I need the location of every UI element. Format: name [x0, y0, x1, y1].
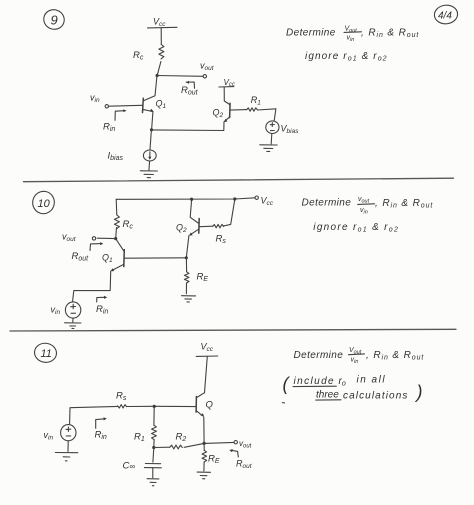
ground (problem 11, capacitor): [147, 479, 159, 486]
resistor RE (problem 10): [184, 272, 189, 283]
svg-text:Vbias: Vbias: [281, 124, 300, 136]
wire RE to ground: [185, 283, 187, 294]
wire Q2 base to R1: [230, 109, 247, 112]
wire Ibias to ground: [148, 161, 151, 170]
wire node down to coupling capacitor: [152, 448, 155, 463]
Rin measuring arrow (problem 10): [97, 296, 108, 302]
svg-text:include: include: [294, 376, 336, 387]
wire node to vout terminal: [157, 75, 203, 78]
transistor Q2 (problem 10): [176, 219, 199, 236]
Rout measuring arrow (problem 10): [90, 242, 103, 250]
svg-text:RE: RE: [197, 272, 209, 284]
capacitor C-infinity (problem 11): [144, 464, 161, 468]
svg-text:Rs: Rs: [216, 234, 227, 246]
underline under "include": [293, 385, 336, 387]
svg-text:Rout: Rout: [181, 85, 199, 97]
node: Q1 base / Q2 emitter / RE junction: [185, 256, 188, 259]
resistor Rc (problem 9): [159, 45, 164, 60]
svg-text:Rin: Rin: [96, 304, 108, 316]
ground (problem 10, vin): [65, 323, 81, 329]
svg-text:4/4: 4/4: [438, 11, 452, 22]
wire node down to R1: [153, 406, 155, 425]
fraction bar (problem 9 text): [344, 31, 362, 34]
svg-text:vout: vout: [358, 196, 370, 205]
svg-text:vout: vout: [239, 439, 252, 449]
transistor Q1 (problem 9): [143, 98, 167, 112]
voltage source Vbias (problem 9): [266, 121, 279, 134]
svg-text:vin: vin: [44, 430, 54, 442]
resistor R1 (problem 11): [152, 425, 157, 440]
terminal vout (problem 11): [234, 441, 237, 444]
fraction bar (problem 10 text): [358, 203, 375, 206]
Rin measuring arrow (problem 11): [96, 417, 107, 428]
wire node up to Q2 emitter: [186, 236, 189, 258]
text: ignore ro1 & ro2 (problem 9): [305, 51, 388, 63]
svg-text:vout: vout: [200, 61, 215, 73]
svg-text:, Rin & Rout: , Rin & Rout: [366, 350, 424, 362]
svg-text:vin: vin: [351, 357, 359, 366]
ground (problem 9, Ibias): [140, 171, 157, 178]
Rin measuring arrow (problem 9): [115, 109, 127, 120]
Rout measuring arrow (problem 9): [186, 81, 195, 89]
svg-text:Q: Q: [206, 400, 214, 411]
svg-text:R2: R2: [176, 432, 187, 444]
node: emitter/bias junction (problem 9): [150, 128, 153, 131]
svg-text:Rs: Rs: [116, 391, 127, 403]
ground (problem 11, vin): [55, 453, 78, 461]
node on rail above Q2 collector: [190, 198, 193, 201]
top supply rail wire (problem 10): [116, 198, 255, 200]
wire vin to ground: [67, 441, 69, 452]
text: ignore ro1 & ro2 (problem 10): [313, 222, 399, 234]
svg-text:Determine: Determine: [294, 350, 344, 361]
svg-text:R1: R1: [134, 432, 145, 444]
svg-text:Q2: Q2: [213, 108, 224, 120]
wire R3 to rail: [224, 200, 235, 226]
svg-text:Determine: Determine: [286, 28, 336, 39]
wire Rc to vout node: [115, 228, 118, 239]
svg-text:Vcc: Vcc: [201, 342, 214, 354]
svg-text:Vcc: Vcc: [261, 196, 274, 208]
wire Q1 emitter down and left to vin: [73, 271, 111, 302]
text: Determine vout/vin, Rin & Rout (problem 11): [294, 347, 425, 365]
Vcc supply label (problem 9, over Q2): [219, 78, 235, 88]
ground (problem 11, RE): [197, 472, 210, 479]
svg-text:Q1: Q1: [156, 99, 167, 111]
svg-text:(: (: [283, 374, 291, 394]
wire node to R2: [154, 446, 170, 448]
svg-text:Rin: Rin: [103, 122, 115, 134]
wire node to Rs: [126, 405, 154, 407]
terminal vout (problem 10): [92, 237, 95, 240]
node: collector/vout junction (problem 9): [156, 74, 159, 77]
transistor Q (problem 11): [196, 393, 213, 417]
svg-text:calculations: calculations: [343, 391, 408, 402]
ground (problem 9, Vbias): [260, 145, 277, 152]
stray pen mark: [283, 402, 285, 404]
svg-text:vin: vin: [360, 207, 368, 216]
wire Q1 base to emitter node of Q2: [124, 257, 186, 259]
terminal Vcc (problem 10): [255, 196, 258, 199]
section divider line 2: [10, 329, 456, 331]
transistor Q1 (problem 10): [102, 250, 124, 272]
svg-text:11: 11: [41, 348, 52, 360]
wire Q2 collector to rail: [190, 200, 199, 224]
wire vin to Q1 base: [109, 104, 143, 107]
svg-text:Q2: Q2: [176, 223, 187, 235]
svg-text:Rout: Rout: [72, 251, 90, 263]
wire Rc to collector node: [157, 62, 161, 76]
text: Determine vout/vin, Rin & Rout (problem 10): [302, 196, 434, 216]
svg-text:vin: vin: [347, 35, 355, 44]
wire node to vout terminal: [97, 237, 116, 239]
voltage source vin (problem 11): [61, 425, 76, 441]
terminal vout (problem 9): [203, 75, 206, 78]
text: (include ro in all three calculations) (problem 11): [283, 374, 423, 402]
svg-text:10: 10: [38, 198, 51, 210]
resistor Rc (problem 10): [114, 215, 119, 229]
fraction bar (problem 11 text): [349, 353, 365, 356]
svg-text:in all: in all: [357, 375, 387, 386]
svg-text:Rc: Rc: [133, 50, 144, 62]
svg-text:three: three: [316, 390, 339, 401]
wire node to Ibias source: [150, 130, 151, 150]
wire Q emitter down to output node: [203, 417, 205, 443]
node: vout/collector junction (problem 10): [114, 237, 117, 240]
terminal vin (problem 9): [105, 105, 108, 108]
svg-text:Vcc: Vcc: [153, 17, 166, 29]
underline under "three": [316, 399, 341, 401]
wire Vcc rail to Rc: [160, 28, 162, 45]
wire vin to ground: [72, 318, 74, 322]
svg-text:Determine: Determine: [302, 198, 352, 209]
problem number 11 circle: [33, 342, 57, 364]
wire RE to ground: [203, 462, 205, 471]
resistor R3 (problem 10): [213, 224, 224, 227]
svg-text:vout: vout: [62, 232, 77, 244]
svg-text:R1: R1: [251, 95, 261, 107]
wire Vbias to ground: [270, 134, 273, 144]
wire R1 to lower node: [153, 440, 155, 448]
wire capacitor to ground: [152, 468, 154, 478]
Vcc supply label (problem 9, over Rc): [148, 17, 178, 29]
wire node down to RE: [203, 443, 205, 450]
resistor Rs (problem 11): [118, 405, 127, 408]
svg-text:9: 9: [51, 13, 58, 28]
ground (problem 10, RE): [182, 296, 196, 302]
page number 4/4 badge: [433, 4, 458, 25]
text: Determine vout/vin, Rin & Rout (problem 9): [286, 26, 419, 44]
wire Q1 emitter down to bias node: [152, 112, 153, 129]
resistor R1 (problem 9): [247, 108, 258, 111]
wire Q base to R1 node: [154, 405, 196, 407]
svg-text:Q1: Q1: [102, 253, 113, 265]
svg-text:, Rin & Rout: , Rin & Rout: [361, 28, 419, 40]
problem number 9 circle: [41, 7, 67, 32]
wire node down to Q1 collector: [144, 76, 158, 101]
svg-text:ignore ro1 & ro2: ignore ro1 & ro2: [313, 222, 399, 234]
wire Rs to vin: [70, 406, 118, 423]
wire R1 to Vbias source: [258, 109, 276, 121]
svg-text:ignore ro1 & ro2: ignore ro1 & ro2: [305, 51, 388, 63]
svg-text:, Rin & Rout: , Rin & Rout: [375, 198, 433, 210]
svg-text:RE: RE: [208, 454, 220, 466]
wire vout node to Q1 collector: [116, 239, 124, 252]
voltage source vin (problem 10): [65, 302, 80, 318]
Vcc supply label (problem 11): [196, 342, 218, 357]
Rout measuring arrow (problem 11): [229, 449, 238, 457]
resistor R2 (problem 11): [170, 445, 182, 449]
wire rail down to Rc: [115, 199, 118, 215]
wire R2 to emitter node: [184, 443, 204, 447]
wire Q2 base to R3: [199, 225, 213, 228]
current source Ibias (problem 9): [143, 150, 156, 161]
wire node to vout terminal: [204, 442, 234, 443]
node: R1/R2/C junction (problem 11): [152, 446, 155, 449]
svg-text:Ibias: Ibias: [108, 151, 124, 163]
node: base/R1 junction (problem 11): [153, 405, 156, 408]
transistor Q2 (problem 9): [213, 103, 231, 122]
svg-text:C∞: C∞: [123, 461, 136, 472]
svg-text:Rout: Rout: [236, 459, 253, 471]
svg-text:ro: ro: [339, 376, 346, 388]
svg-text:vin: vin: [51, 305, 61, 317]
svg-text:): ): [415, 382, 423, 402]
problem number 10 circle: [30, 189, 56, 216]
wire Q2 collector to Vcc: [224, 87, 230, 105]
section divider line 1: [24, 178, 454, 182]
wire Vcc down to Q collector: [205, 356, 208, 392]
svg-text:Rin: Rin: [95, 430, 107, 442]
svg-text:vin: vin: [90, 93, 100, 105]
wire node down to RE: [185, 258, 187, 272]
node: emitter/RE/vout junction (problem 11): [203, 442, 206, 445]
svg-text:Rc: Rc: [123, 219, 134, 231]
resistor RE (problem 11): [202, 450, 207, 462]
wire emitter bus to Q2 emitter: [152, 122, 225, 131]
node on rail above R3: [233, 197, 236, 200]
